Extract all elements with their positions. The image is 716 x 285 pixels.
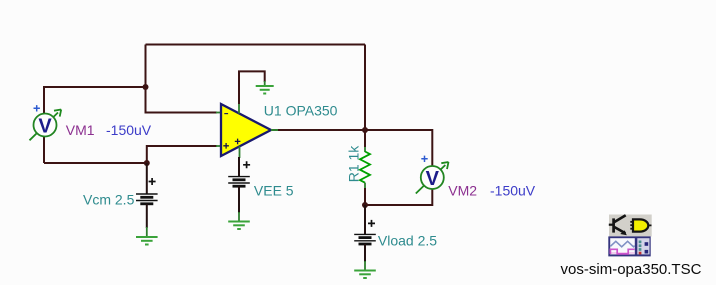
wire: junction to non-inverting input	[147, 146, 217, 163]
node: Vcm junction	[144, 160, 150, 166]
ground below Vcm	[136, 237, 158, 245]
wire: bottom supply to VEE battery	[238, 157, 240, 177]
svg-text:Vload 2.5: Vload 2.5	[378, 232, 437, 248]
ground at op-amp positive rail	[256, 86, 274, 94]
wire: VEE battery to ground	[238, 186, 240, 213]
battery Vcm	[136, 178, 158, 204]
svg-text:R1 1k: R1 1k	[346, 145, 362, 183]
pin: op-amp non-inverting input stub	[216, 145, 222, 147]
svg-text:V: V	[38, 116, 52, 138]
battery VEE	[228, 161, 250, 186]
svg-text:-150uV: -150uV	[490, 182, 536, 198]
wire: VM1 bottom vertical	[43, 136, 45, 163]
svg-text:VEE 5: VEE 5	[254, 183, 294, 199]
wire: top supply to ground	[239, 71, 265, 104]
svg-text:VM1: VM1	[66, 122, 95, 138]
svg-text:V: V	[426, 168, 440, 190]
wire: Vload battery to ground	[364, 244, 366, 262]
wire: feedback left drop	[145, 45, 147, 88]
svg-text:Vcm 2.5: Vcm 2.5	[83, 192, 135, 208]
wire: load junction to VM2 bottom	[365, 190, 432, 206]
node: load junction	[362, 202, 368, 208]
pin: op-amp inverting input stub	[216, 112, 222, 114]
battery Vload	[354, 220, 376, 244]
wire: VM1 top vertical	[43, 86, 45, 114]
wire: feedback right drop to output node	[364, 45, 366, 131]
resistor R1	[360, 130, 370, 205]
node: output junction	[362, 127, 368, 133]
voltmeter VM1	[30, 105, 62, 140]
ground below Vload	[354, 271, 376, 279]
wire: VM1 top horizontal	[44, 86, 146, 88]
svg-text:-150uV: -150uV	[106, 122, 152, 138]
wire: output node to VM2	[365, 130, 432, 166]
svg-text:vos-sim-opa350.TSC: vos-sim-opa350.TSC	[561, 261, 702, 278]
node: feedback / inverting junction	[143, 84, 149, 90]
op-amp U1 OPA350	[221, 104, 271, 156]
pin: op-amp top supply stub	[238, 104, 240, 114]
voltmeter VM2	[416, 156, 449, 194]
pin: op-amp output stub	[271, 129, 279, 131]
pin: op-amp bottom supply stub	[239, 146, 241, 158]
wire: Vcm battery to ground	[146, 204, 148, 228]
svg-text:U1 OPA350: U1 OPA350	[264, 103, 338, 119]
ground below VEE	[228, 222, 250, 230]
wire: junction to inverting input	[146, 87, 218, 113]
icon: TINA TSC file	[608, 215, 651, 257]
svg-text:VM2: VM2	[448, 182, 477, 198]
wire: output to node	[278, 129, 365, 131]
wire: top feedback rail	[146, 44, 366, 46]
wire: load junction to Vload battery	[364, 205, 366, 234]
wire: VM1 bottom horizontal	[44, 162, 147, 164]
wire: junction down to Vcm battery	[146, 163, 148, 194]
